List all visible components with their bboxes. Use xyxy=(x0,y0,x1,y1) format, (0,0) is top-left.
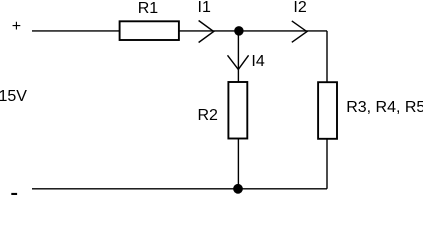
wire: R3,R4,R5 to bottom wire xyxy=(326,139,328,189)
svg-text:I1: I1 xyxy=(198,0,211,16)
wire: node A down to R2 xyxy=(237,31,239,82)
- terminal label xyxy=(11,193,17,195)
resistor R2 xyxy=(228,82,247,139)
wire: + terminal to R1 xyxy=(32,30,120,32)
svg-text:I2: I2 xyxy=(293,0,306,16)
wire: right corner down to R3,R4,R5 xyxy=(326,31,328,82)
svg-text:R1: R1 xyxy=(138,0,159,17)
resistor R1 xyxy=(120,21,179,40)
node A (top junction dot) xyxy=(234,26,244,36)
wire: R1 to node A xyxy=(179,30,239,32)
svg-text:I4: I4 xyxy=(251,53,264,70)
current arrow I1 xyxy=(199,21,214,43)
current arrow I2 xyxy=(292,21,307,42)
svg-text:15V: 15V xyxy=(0,88,27,105)
bottom junction node xyxy=(233,184,243,194)
svg-text:+: + xyxy=(12,18,21,35)
wire: R2 to bottom node xyxy=(237,139,239,189)
wire: node A to right corner xyxy=(239,30,327,32)
svg-text:R2: R2 xyxy=(198,107,219,124)
current arrow I4 xyxy=(228,55,249,69)
svg-text:R3, R4, R5: R3, R4, R5 xyxy=(346,99,423,116)
resistor R3, R4, R5 xyxy=(318,82,337,139)
bottom wire: - terminal to right branch xyxy=(32,188,327,190)
